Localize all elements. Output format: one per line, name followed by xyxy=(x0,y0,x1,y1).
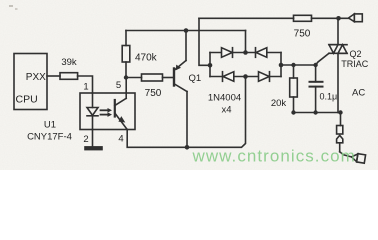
svg-text:4: 4 xyxy=(118,134,123,145)
node bridge bottom-center xyxy=(243,74,248,79)
capacitor 0.1u xyxy=(315,65,317,82)
connector plug xyxy=(337,135,343,142)
svg-text:20k: 20k xyxy=(271,98,287,109)
svg-text:x4: x4 xyxy=(221,105,231,116)
svg-text:1: 1 xyxy=(83,82,88,93)
wire AC top rail xyxy=(199,17,294,19)
svg-text:PXX: PXX xyxy=(26,72,46,83)
optocoupler U1 box xyxy=(80,93,135,130)
svg-text:U1: U1 xyxy=(44,120,56,131)
wire bridge left to AC top rail xyxy=(199,18,210,65)
wire CPU to R 39k xyxy=(47,75,60,77)
svg-text:2: 2 xyxy=(83,134,88,145)
svg-text:CNY17F-4: CNY17F-4 xyxy=(27,132,72,143)
node pin5 junction xyxy=(124,75,128,79)
node 20k bottom xyxy=(291,110,295,114)
wire down to connector pair xyxy=(340,113,342,126)
diode D1 top-left xyxy=(222,48,233,58)
wire 470k top to rail xyxy=(125,62,127,78)
node 20k top xyxy=(291,63,295,67)
svg-text:AC: AC xyxy=(352,88,365,99)
svg-text:0.1μ: 0.1μ xyxy=(320,92,338,102)
wire opto pin5 up xyxy=(125,78,127,94)
node bridge right xyxy=(279,63,284,68)
wire to AC bottom connector xyxy=(340,152,352,157)
wire rail to bridge top-center xyxy=(245,31,247,53)
node bridge left xyxy=(208,63,213,68)
resistor 20k xyxy=(293,65,295,78)
wire bridge right to RC rail xyxy=(281,64,316,66)
wire top rail left xyxy=(126,30,246,32)
svg-text:39k: 39k xyxy=(61,57,77,68)
resistor 39k xyxy=(60,73,78,80)
phototransistor inside U1 xyxy=(114,100,116,117)
svg-text:5: 5 xyxy=(116,80,121,91)
node Q1 emitter junction xyxy=(184,28,189,33)
node bridge top-center xyxy=(243,50,248,55)
LED inside U1 xyxy=(92,93,94,108)
svg-text:750: 750 xyxy=(145,88,162,99)
resistor 470k xyxy=(122,46,130,63)
svg-text:www.cntronics.com: www.cntronics.com xyxy=(192,147,356,166)
transistor Q1 xyxy=(173,69,175,86)
scan speck xyxy=(9,5,13,7)
light arrows xyxy=(101,109,108,111)
triac gate xyxy=(316,53,329,65)
svg-text:TRIAC: TRIAC xyxy=(341,59,369,69)
node cap bottom xyxy=(313,110,317,114)
diode D4 bottom-right xyxy=(259,72,270,82)
resistor 750 snubber xyxy=(294,15,312,21)
svg-text:Q1: Q1 xyxy=(189,73,202,84)
wire 750 to connector xyxy=(312,17,349,19)
svg-text:470k: 470k xyxy=(135,53,158,64)
diode D2 top-right xyxy=(255,48,257,58)
node triac top junction xyxy=(336,16,341,21)
connector receptacle xyxy=(337,126,343,135)
svg-text:Q2: Q2 xyxy=(350,49,362,59)
resistor 750 base xyxy=(126,77,142,79)
wire opto pin2 to ground xyxy=(92,130,94,147)
CPU box xyxy=(14,54,47,110)
connector spade bottom-right xyxy=(351,153,366,163)
svg-text:1N4004: 1N4004 xyxy=(208,93,241,104)
node Q1 collector junction xyxy=(185,145,190,150)
diode D3 bottom-left xyxy=(222,72,224,82)
wire opto pin4 down and bottom rail xyxy=(127,77,245,148)
node AC branch xyxy=(338,110,342,114)
scan speck xyxy=(15,8,18,10)
svg-text:CPU: CPU xyxy=(16,94,38,106)
ground xyxy=(85,147,102,150)
wire bottom RC rail xyxy=(294,112,341,114)
bridge rectifier outline wires xyxy=(210,52,281,54)
triac Q2 xyxy=(337,18,339,44)
svg-text:750: 750 xyxy=(294,29,311,40)
node cap top / gate xyxy=(313,63,317,67)
connector spade top-right xyxy=(349,14,355,22)
wire 39k to opto pin1 xyxy=(78,76,93,93)
